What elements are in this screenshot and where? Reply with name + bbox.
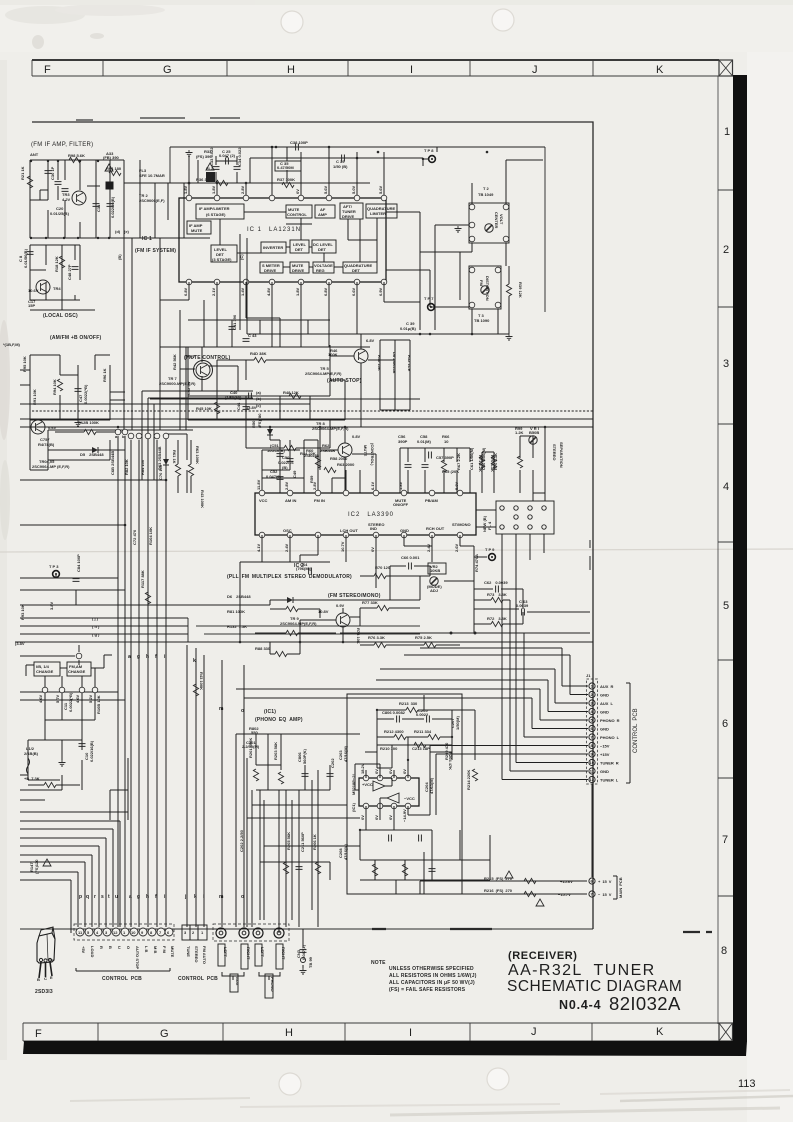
resistor R21 [27, 176, 32, 188]
svg-text:PB/AM: PB/AM [425, 498, 439, 503]
VR1 trimmer [529, 436, 537, 444]
svg-text:R96 1K: R96 1K [102, 368, 107, 382]
wires FL4 to IC2 [476, 493, 545, 560]
svg-text:0.01/25(B): 0.01/25(B) [50, 211, 70, 216]
wires right cluster row4 [482, 427, 545, 501]
svg-text:C202: C202 [330, 758, 335, 768]
T2 pin 3 [469, 204, 475, 210]
main pcb pin -15V [589, 891, 595, 897]
capacitor C205 [427, 716, 430, 723]
AM/FM switch circuit wires [30, 355, 193, 470]
IC2 input network wires [262, 427, 376, 493]
svg-text:IND: IND [370, 526, 377, 531]
svg-text:R4/78(B): R4/78(B) [38, 442, 55, 447]
resistor R211 [428, 734, 440, 739]
svg-text:1.2K: 1.2K [515, 430, 524, 435]
top grid band [32, 60, 719, 76]
svg-text:C49: C49 [292, 470, 297, 478]
i bus line [203, 655, 205, 927]
capacitor C39 inline [342, 155, 345, 162]
svg-text:R95 10K: R95 10K [22, 356, 27, 372]
svg-text:TB 1049: TB 1049 [478, 192, 494, 197]
svg-text:H: H [285, 1027, 293, 1039]
svg-text:ADJ: ADJ [430, 588, 438, 593]
connector CN2 box 3 2 1 [182, 925, 207, 940]
FL4 pins row2 [500, 525, 546, 529]
svg-text:(AM/FM +B ON/OFF): (AM/FM +B ON/OFF) [50, 335, 101, 341]
wires a b c going left [142, 391, 253, 480]
svg-text:1: 1 [724, 126, 730, 138]
CONTROL PCB connector pins right [589, 683, 595, 783]
capacitor C209 [419, 835, 422, 842]
svg-text:DRIVE: DRIVE [292, 268, 305, 273]
svg-text:a: a [129, 894, 132, 900]
svg-text:(FS)780: (FS)780 [257, 413, 262, 428]
svg-text:3.8V: 3.8V [49, 601, 54, 610]
svg-text:RIGHT: RIGHT [281, 947, 286, 960]
horizontal sub-rail 562 [240, 555, 330, 642]
svg-text:R214 220K: R214 220K [466, 770, 471, 790]
svg-text:0.022/50(B): 0.022/50(B) [110, 196, 115, 218]
wires left lower block [20, 758, 128, 820]
capacitor C84 [73, 579, 80, 582]
resistor R75 [424, 642, 436, 647]
second bus letters at 656 [128, 654, 166, 660]
long wires rows5-6 to left [236, 648, 570, 698]
svg-text:2SB44B: 2SB44B [320, 448, 335, 453]
second rail [20, 399, 420, 404]
capacitor C52 [277, 477, 284, 480]
capacitor C62 [496, 586, 499, 593]
extra caps left block [40, 161, 100, 200]
svg-text:R211 334: R211 334 [414, 729, 432, 734]
svg-text:AUTO STOP: AUTO STOP [135, 946, 140, 970]
svg-text:DET: DET [318, 247, 327, 252]
svg-text:R77 33K: R77 33K [362, 600, 378, 605]
svg-text:T P 8: T P 8 [424, 148, 434, 153]
svg-text:LEFT: LEFT [223, 947, 228, 958]
TR5 wires [330, 334, 395, 427]
svg-text:47/16(M): 47/16(M) [343, 745, 348, 762]
junction dots top rails [188, 146, 359, 185]
svg-text:t: t [108, 894, 110, 900]
svg-text:TB 99: TB 99 [308, 956, 313, 968]
svg-text:F: F [35, 1028, 42, 1040]
svg-text:SFE 10.7MAR: SFE 10.7MAR [139, 173, 165, 178]
svg-text:R70 120: R70 120 [375, 565, 391, 570]
capacitor C34 [234, 167, 241, 170]
svg-text:*(1B,F,M): *(1B,F,M) [3, 342, 21, 347]
svg-text:47/63(M): 47/63(M) [429, 777, 434, 794]
svg-text:C33 0.022: C33 0.022 [209, 147, 214, 166]
k bus line [195, 648, 197, 927]
resistor R10B [44, 782, 56, 787]
svg-text:0V: 0V [360, 815, 365, 820]
RCA labels LEFT RIGHT boxed [218, 944, 286, 969]
op-amp IC2 LA3390 outline [255, 493, 476, 535]
RCA jack phono L [274, 928, 284, 938]
punch hole bottom right-center [487, 1068, 509, 1090]
svg-text:T P 3: T P 3 [49, 564, 59, 569]
dotted 13.8V rail [32, 410, 593, 412]
svg-text:R91 10K: R91 10K [32, 389, 37, 405]
main pcb pin +15V [589, 878, 595, 884]
svg-text:F M: F M [162, 946, 167, 954]
op-amp IC1 LA1231N outline [179, 198, 386, 282]
svg-text:CONTROL PCB: CONTROL PCB [102, 976, 142, 982]
svg-text:MUTE: MUTE [170, 946, 175, 958]
svg-text:TUNER L: TUNER L [600, 778, 619, 783]
svg-text:R204 47K: R204 47K [448, 752, 453, 770]
svg-text:(CONTROL): (CONTROL) [370, 443, 375, 466]
resistor R216 [524, 891, 536, 896]
svg-text:0.8V: 0.8V [183, 287, 188, 296]
junctions rail 642 [239, 632, 477, 644]
T2 pin 2 [469, 222, 475, 228]
VR2 box [428, 563, 446, 574]
test point TP7 [428, 304, 435, 311]
main 13.8V rail [20, 426, 593, 428]
svg-text:(e): (e) [124, 229, 130, 234]
VR2 screw [430, 577, 438, 585]
capacitor C203 [389, 835, 392, 842]
svg-text:RCH OUT: RCH OUT [426, 526, 445, 531]
svg-text:K: K [656, 64, 664, 76]
IC1 bottom pins [186, 279, 387, 285]
junction dots on rail [188, 151, 489, 185]
IC1 sub-block INVERTER [261, 242, 286, 253]
svg-text:R203 56K: R203 56K [273, 742, 278, 760]
svg-text:s: s [101, 894, 104, 900]
local oscillator section wires [30, 245, 95, 310]
resistor R12B [84, 429, 96, 434]
svg-text:(FM STEREO/MONO): (FM STEREO/MONO) [328, 593, 381, 599]
svg-text:4.1V: 4.1V [256, 543, 261, 552]
svg-text:RIGHT: RIGHT [246, 947, 251, 960]
junction dots rail427 [269, 426, 547, 429]
top rail y147 [170, 146, 545, 148]
svg-text:FM IN: FM IN [314, 498, 325, 503]
svg-text:113: 113 [738, 1078, 756, 1090]
TR8 wires [320, 427, 376, 493]
wires m o tops [222, 660, 244, 703]
warning triangle left [43, 859, 51, 866]
svg-text:H: H [287, 64, 295, 76]
FM block vertical wires T2/T3 to IC [386, 212, 498, 334]
svg-text:C38 100P: C38 100P [290, 140, 308, 145]
svg-text:13.8V: 13.8V [246, 405, 257, 410]
RCA jack phono R [253, 928, 263, 938]
capacitor C48 [72, 267, 79, 270]
transformer T2 TB1049 box [469, 186, 509, 243]
svg-text:FM: FM [479, 280, 484, 286]
svg-text:5: 5 [723, 600, 729, 612]
left fan wires to bottom connector [20, 821, 120, 933]
svg-text:m: m [219, 706, 224, 712]
svg-text:MAIN PCB: MAIN PCB [618, 877, 623, 898]
capacitor C41 [229, 327, 236, 330]
junction dots rail334 [419, 333, 474, 336]
resistor R205 v [283, 862, 288, 874]
FM IF amp filter left block wires [30, 160, 212, 238]
svg-text:R61 1K: R61 1K [172, 450, 177, 464]
svg-text:6.8V: 6.8V [366, 338, 375, 343]
capacitor C33 [213, 167, 220, 170]
svg-text:U: U [117, 946, 122, 949]
pin voltage labels [38, 694, 93, 703]
left paper edge shading [0, 60, 7, 1060]
svg-text:12: 12 [113, 930, 118, 935]
TP9 wire [444, 557, 487, 581]
svg-text:1.4V: 1.4V [240, 287, 245, 296]
IC1 top pins [186, 195, 387, 201]
svg-text:k: k [193, 658, 196, 664]
svg-text:C 43: C 43 [248, 333, 257, 338]
black binding bar bottom [23, 1041, 747, 1056]
transistor TR3 [72, 191, 86, 205]
transistor TR9 [336, 613, 350, 627]
IC1 sub-block IF AMP/LIMITER [196, 204, 244, 219]
svg-text:B50B: B50B [529, 430, 539, 435]
svg-text:6: 6 [722, 718, 728, 730]
IC1 sub-block QUADRATURE DET [343, 262, 377, 273]
resistor R201 vertical [253, 769, 258, 781]
svg-text:0.8V: 0.8V [352, 434, 361, 439]
FL4 filter connector box [496, 501, 554, 534]
svg-text:(IC1): (IC1) [351, 802, 356, 812]
svg-text:NOTE: NOTE [371, 960, 386, 966]
svg-text:−VCC: −VCC [404, 796, 415, 801]
svg-text:(PHONO EQ AMP): (PHONO EQ AMP) [255, 717, 303, 723]
svg-text:R42 56K: R42 56K [172, 354, 177, 370]
svg-text:2SC9064-MP(E,F,R): 2SC9064-MP(E,F,R) [280, 621, 317, 626]
T3 tuning screw [481, 286, 489, 294]
resistor R73 [491, 597, 503, 602]
svg-text:(d): (d) [115, 229, 121, 234]
svg-text:R50: R50 [251, 420, 256, 428]
ground near T2 pin2 [455, 226, 462, 232]
svg-text:4.6V: 4.6V [38, 694, 43, 703]
third rail [20, 418, 593, 420]
svg-text:FL 4: FL 4 [487, 521, 492, 530]
svg-text:C202 2.2/50: C202 2.2/50 [239, 829, 244, 852]
svg-text:7: 7 [722, 834, 728, 846]
svg-text:R4D 38K: R4D 38K [250, 351, 267, 356]
svg-text:5.8V: 5.8V [454, 481, 459, 490]
svg-text:CHANGE: CHANGE [36, 669, 54, 674]
FL4 middle pins [514, 515, 532, 519]
svg-text:0.047(2): 0.047(2) [266, 474, 282, 479]
svg-text:2.8V: 2.8V [240, 185, 245, 194]
wire main rail y183 [124, 182, 370, 184]
D6 wire [270, 576, 420, 600]
resistor R213 [406, 707, 418, 712]
svg-text:550: 550 [251, 730, 258, 735]
junction dots bus feeds [117, 426, 168, 527]
svg-text:T P 7: T P 7 [424, 296, 434, 301]
RCA jack aux L [239, 928, 249, 938]
boxed label C35 0.47/50M [275, 161, 301, 171]
svg-text:2.8V: 2.8V [284, 481, 289, 490]
capacitor C51 [277, 454, 284, 457]
svg-text:r: r [94, 894, 96, 900]
resistor R208 v [402, 864, 407, 876]
transistor TR5 [354, 349, 368, 363]
IC2 pin voltages top [256, 479, 459, 490]
svg-text:4.6V: 4.6V [75, 694, 80, 703]
svg-text:82I032A: 82I032A [609, 993, 681, 1014]
ground change [59, 760, 66, 766]
CN1 pins circles with numbers [76, 928, 173, 936]
svg-text:(3 STAGE): (3 STAGE) [212, 257, 232, 262]
svg-text:IC2 LA3390: IC2 LA3390 [348, 512, 394, 518]
svg-text:CONTROL PCB: CONTROL PCB [633, 708, 639, 753]
svg-text:−15.7V: −15.7V [558, 892, 571, 897]
op-amp internal wires [380, 778, 392, 806]
resistor R39 vertical [506, 284, 511, 296]
transistor TR4 [36, 280, 50, 294]
svg-text:TUNER R: TUNER R [600, 761, 619, 766]
X register mark box top right [719, 60, 733, 76]
svg-text:(FS) = FAIL SAFE RESISTORS: (FS) = FAIL SAFE RESISTORS [389, 987, 466, 993]
resistor R117v [145, 592, 150, 604]
horizontal stubs left rows5 [20, 692, 125, 775]
svg-text:MUTE: MUTE [363, 445, 368, 457]
svg-text:2SC9000-MP(E,F,R): 2SC9000-MP(E,F,R) [159, 381, 196, 386]
svg-text:100K: 100K [328, 352, 338, 357]
connector pin numbers [590, 684, 595, 783]
switch box FM,AM CHANGE [67, 662, 91, 676]
extra wires am/fm block [20, 355, 125, 470]
resistor R210 [414, 742, 426, 747]
C62 wires [474, 589, 523, 609]
svg-text:F: F [44, 64, 51, 76]
op-amp voltage labels [360, 763, 407, 822]
svg-text:R: R [99, 946, 104, 949]
svg-text:(PLL FM MULTIPLEX STEREO DEMOD: (PLL FM MULTIPLEX STEREO DEMODULATOR) [227, 574, 352, 580]
IC1 sub-block MUTE CONTROL [286, 205, 312, 218]
svg-text:D63 2SB44B: D63 2SB44B [157, 446, 162, 470]
capacitor C211 v [296, 867, 303, 870]
svg-text:5.6V: 5.6V [378, 185, 383, 194]
black binding bar right edge [733, 75, 747, 1042]
diode D1 [267, 429, 273, 435]
svg-text:1.8V: 1.8V [211, 185, 216, 194]
svg-text:PHONO: PHONO [270, 977, 275, 992]
test point TP8 [429, 156, 436, 163]
svg-text:C806 0.0082: C806 0.0082 [382, 710, 406, 715]
capacitor C58 [422, 465, 429, 468]
bottom grid band [23, 1023, 719, 1041]
svg-text:J: J [532, 64, 538, 76]
svg-text:2.4V: 2.4V [284, 543, 289, 552]
left vertical bus group a-f [118, 436, 166, 927]
svg-text:R73 3.3K: R73 3.3K [487, 592, 507, 597]
IC1 pin voltage labels top [183, 185, 383, 194]
svg-text:390P: 390P [398, 439, 408, 444]
capacitor C806 [397, 716, 400, 723]
IC1 internal connection wires [220, 212, 377, 267]
connector bracket [626, 683, 630, 783]
X register mark box bottom right [719, 1023, 733, 1041]
IC1 pin voltage labels bottom [183, 287, 383, 296]
svg-text:0V: 0V [190, 354, 195, 359]
svg-text:R88 330: R88 330 [255, 646, 271, 651]
svg-text:3: 3 [723, 358, 729, 370]
svg-text:LIMITER: LIMITER [370, 211, 386, 216]
svg-text:FM AUTO: FM AUTO [202, 946, 207, 964]
resistor R40b [254, 357, 266, 362]
svg-text:+B 7.3K: +B 7.3K [24, 776, 40, 781]
resistor R214 v [472, 769, 477, 781]
svg-text:f: f [155, 654, 157, 660]
capacitor C806b v [302, 774, 309, 777]
svg-text:R63 100K: R63 100K [195, 446, 200, 464]
svg-text:R45 10K: R45 10K [196, 406, 212, 411]
capacitor C64 [309, 568, 312, 575]
svg-text:10: 10 [131, 930, 136, 935]
svg-text:R70 3.3K: R70 3.3K [490, 455, 495, 472]
svg-text:12: 12 [590, 777, 595, 782]
transistor TR7 [196, 363, 210, 377]
IC1 sub-block MUTE DRIVE [290, 262, 309, 273]
svg-text:0V: 0V [370, 547, 375, 552]
svg-text:(a): (a) [256, 390, 262, 395]
capacitor C17 [107, 204, 114, 207]
svg-text:0.01/50(B): 0.01/50(B) [23, 248, 28, 268]
svg-text:R84 100: R84 100 [140, 459, 145, 475]
svg-text:0.0022(*B): 0.0022(*B) [83, 384, 88, 404]
svg-text:4.8V: 4.8V [266, 287, 271, 296]
punch hole top left-center [281, 11, 303, 33]
svg-text:E: E [50, 975, 53, 980]
transformer T3 FM DISTORTION box [469, 266, 501, 309]
svg-text:GND: GND [400, 528, 409, 533]
resistor on k line [193, 684, 198, 696]
svg-text:GND: GND [600, 693, 609, 698]
left wires row5/6 [20, 574, 125, 605]
resistor R71 [491, 456, 496, 468]
svg-text:PHONO L: PHONO L [600, 735, 620, 740]
triangle D below R216 [536, 899, 544, 906]
svg-text:0.047 (2): 0.047 (2) [219, 153, 236, 158]
svg-text:2SD3I3: 2SD3I3 [35, 989, 53, 995]
resistor R206 v [315, 862, 320, 874]
CN1 pin numbers [78, 930, 170, 935]
svg-text:R58 2000: R58 2000 [330, 456, 348, 461]
T2 tuning screw [485, 224, 493, 232]
svg-text:T P 9: T P 9 [485, 547, 495, 552]
phono extra wires [247, 770, 360, 927]
resistor R215 [524, 878, 536, 883]
svg-text:G: G [163, 64, 172, 76]
svg-text:5.2V: 5.2V [88, 694, 93, 703]
svg-text:R52 1CE: R52 1CE [407, 355, 412, 372]
svg-text:R201 490K: R201 490K [248, 738, 253, 758]
svg-text:k: k [194, 894, 197, 900]
svg-text:R81 100K: R81 100K [227, 609, 245, 614]
svg-text:2SC9000(E,F): 2SC9000(E,F) [139, 198, 165, 203]
small circle CN3 [301, 958, 306, 963]
svg-text:0V: 0V [402, 769, 407, 774]
svg-text:2SB44B: 2SB44B [304, 453, 319, 458]
RCA jack dashed box [213, 924, 289, 941]
resistor R132 [286, 630, 298, 635]
resistor R77 [377, 605, 389, 610]
svg-text:ALL CAPACITORS IN μF 50 WV(J): ALL CAPACITORS IN μF 50 WV(J) [389, 980, 475, 986]
svg-text:h: h [146, 894, 149, 900]
capacitor C25 [226, 158, 229, 165]
